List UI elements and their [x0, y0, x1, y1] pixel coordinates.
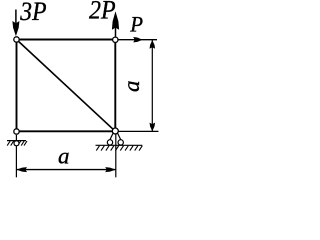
- svg-text:a: a: [58, 144, 70, 169]
- svg-text:2P: 2P: [89, 0, 116, 25]
- svg-text:P: P: [129, 12, 143, 37]
- svg-text:a: a: [119, 80, 144, 92]
- svg-text:3P: 3P: [19, 0, 46, 26]
